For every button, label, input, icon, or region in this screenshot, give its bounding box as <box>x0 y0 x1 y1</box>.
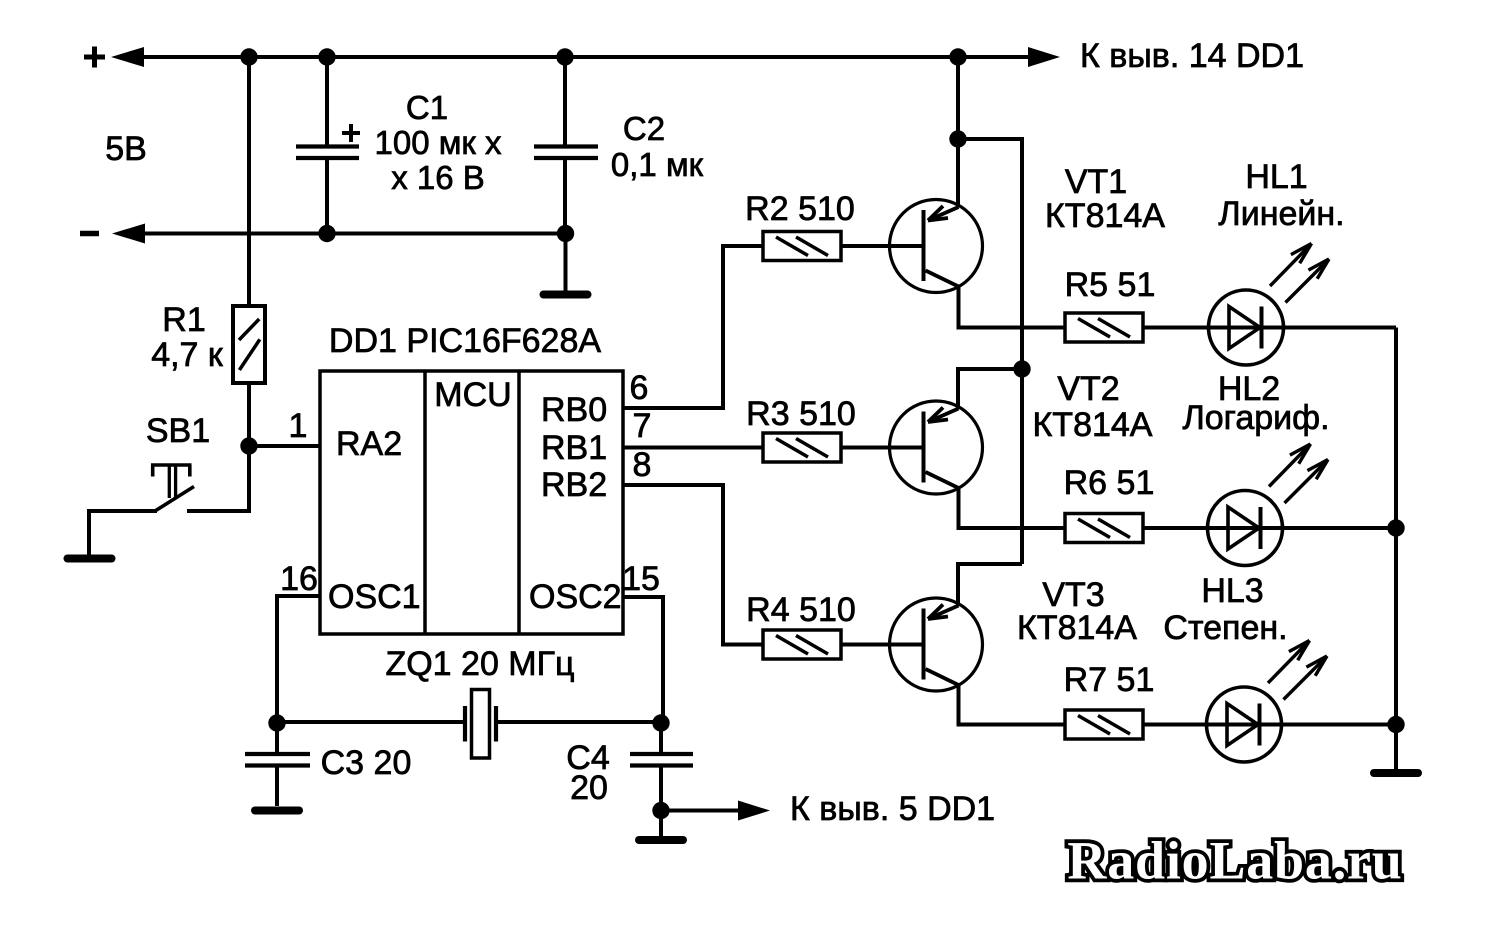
wire C3 to ground <box>275 765 279 806</box>
svg-text:ZQ1 20 МГц: ZQ1 20 МГц <box>385 645 574 683</box>
label 20 <box>570 769 608 807</box>
transistor VT3 <box>840 598 983 691</box>
svg-text:C2: C2 <box>623 110 665 147</box>
wire emitter bus lower <box>1020 369 1024 564</box>
svg-text:15: 15 <box>622 560 660 598</box>
LED HL2 <box>1208 444 1329 566</box>
wire R6 to HL2 <box>1143 526 1208 530</box>
label HL2 <box>1218 370 1280 408</box>
svg-text:7: 7 <box>633 407 652 445</box>
wire HL3 to right bus <box>1281 723 1396 727</box>
svg-text:4,7 к: 4,7 к <box>151 336 224 374</box>
label VT1 <box>1065 163 1127 201</box>
node junction RA2/SB1 <box>240 437 257 454</box>
label C1 <box>406 89 448 126</box>
ground at C2 <box>544 291 588 299</box>
label HL1 <box>1245 158 1307 196</box>
capacitor C4 <box>630 754 693 766</box>
node junction top rail at C2 <box>556 48 573 65</box>
svg-text:MCU: MCU <box>434 376 511 414</box>
label Линейн. <box>1218 195 1344 233</box>
wire +5V top rail with left arrow <box>111 47 1032 67</box>
svg-text:RB0: RB0 <box>541 391 607 429</box>
LED HL3 <box>1207 641 1328 763</box>
pin number 1 <box>289 407 308 445</box>
svg-text:RA2: RA2 <box>336 425 402 463</box>
logo RadioLaba.ru <box>1067 831 1402 891</box>
svg-text:RadioLaba.ru: RadioLaba.ru <box>1067 831 1402 891</box>
node junction top rail at R1 <box>240 48 257 65</box>
ground at C3 <box>255 807 299 815</box>
svg-text:5В: 5В <box>105 130 147 168</box>
wire ZQ1 right <box>496 720 663 724</box>
wire bus to VT2 emitter <box>958 369 1022 409</box>
transistor VT2 <box>840 401 983 494</box>
svg-text:К выв. 5 DD1: К выв. 5 DD1 <box>790 790 995 828</box>
wire ZQ1 left <box>277 720 465 724</box>
label К выв. 5 DD1 <box>790 790 995 828</box>
label C3 20 <box>321 744 412 782</box>
svg-text:R1: R1 <box>162 301 205 339</box>
wire C4 top <box>659 722 663 753</box>
svg-text:RB2: RB2 <box>541 466 607 504</box>
svg-text:R3 510: R3 510 <box>746 395 856 433</box>
capacitor C2 <box>534 147 598 159</box>
label Степен. <box>1163 609 1287 647</box>
plus power terminal <box>84 47 105 68</box>
wire R4 to VT3 base <box>841 643 890 647</box>
label SB1 <box>146 412 210 450</box>
svg-text:VT1: VT1 <box>1065 163 1127 201</box>
svg-text:DD1 PIC16F628A: DD1 PIC16F628A <box>329 322 601 360</box>
wire bus jog to VT1 emitter <box>958 139 1022 207</box>
svg-text:20: 20 <box>570 769 608 807</box>
resistor R4 <box>763 630 841 659</box>
ground at C4 <box>639 836 683 844</box>
svg-text:КТ814А: КТ814А <box>1017 609 1137 647</box>
wire R5 to HL1 <box>1143 326 1209 330</box>
wire VT2 collector to R6 <box>959 488 1066 528</box>
label C2 <box>623 110 665 147</box>
label R4 510 <box>746 591 856 629</box>
wire R7 to HL3 <box>1143 723 1207 727</box>
svg-text:Линейн.: Линейн. <box>1218 195 1344 233</box>
wire VT3 collector to R7 <box>959 685 1066 725</box>
wire pin 6 RB0 to R2 <box>623 246 764 408</box>
wire C1 top <box>325 57 329 146</box>
label VT2 <box>1057 370 1119 408</box>
node junction C4/ground/arrow <box>652 802 669 819</box>
pin number 15 <box>622 560 660 598</box>
wire R1 to RA2 node <box>247 381 251 446</box>
svg-text:16: 16 <box>280 560 318 598</box>
svg-text:КТ814А: КТ814А <box>1033 406 1153 444</box>
wire emitter bus vertical <box>1020 137 1024 369</box>
label 4,7 к <box>151 336 224 374</box>
svg-text:R2 510: R2 510 <box>745 190 855 228</box>
svg-text:6: 6 <box>630 369 649 407</box>
label MCU <box>434 376 511 414</box>
minus power terminal <box>80 231 99 237</box>
resistor R6 <box>1065 514 1143 543</box>
resistor R5 <box>1065 313 1143 342</box>
node junction right bus HL3 <box>1387 716 1404 733</box>
wire R3 to VT2 base <box>841 446 890 450</box>
label RB2 <box>541 466 607 504</box>
svg-text:R5 51: R5 51 <box>1065 266 1156 304</box>
resistor R2 <box>763 232 841 261</box>
node junction right bus HL2 <box>1387 519 1404 536</box>
label R3 510 <box>746 395 856 433</box>
wire pin 1 RA2 <box>249 444 320 448</box>
label Логариф. <box>1182 399 1329 437</box>
svg-text:SB1: SB1 <box>146 412 210 450</box>
LED HL1 <box>1209 244 1330 366</box>
label RB1 <box>541 429 607 467</box>
label х 16 В <box>391 159 485 196</box>
node junction OSC2/C4/ZQ1 <box>652 714 669 731</box>
wire right bus <box>1394 328 1398 770</box>
crystal ZQ1 <box>465 690 496 759</box>
label К выв. 14 DD1 <box>1080 37 1304 75</box>
wire emitter bus top <box>956 57 960 139</box>
label R1 <box>162 301 205 339</box>
wire C2 bottom <box>563 158 567 234</box>
transistor VT1 <box>840 200 983 293</box>
node junction bottom rail at C1 <box>318 225 335 242</box>
svg-text:0,1 мк: 0,1 мк <box>611 146 704 183</box>
wire C4 to node <box>659 765 663 810</box>
svg-text:КТ814А: КТ814А <box>1045 197 1165 235</box>
pushbutton SB1 <box>151 444 249 511</box>
resistor R1 <box>233 306 265 383</box>
label R7 51 <box>1064 661 1155 699</box>
pin number 7 <box>633 407 652 445</box>
label DD1 PIC16F628A <box>329 322 601 360</box>
resistor R3 <box>763 433 841 462</box>
wire pin 7 RB1 to R3 <box>623 446 764 450</box>
svg-text:R6 51: R6 51 <box>1064 464 1155 502</box>
svg-text:100 мк х: 100 мк х <box>374 124 502 161</box>
label 5В <box>105 130 147 168</box>
svg-text:К выв. 14 DD1: К выв. 14 DD1 <box>1080 37 1304 75</box>
svg-text:Логариф.: Логариф. <box>1182 399 1329 437</box>
label OSC1 <box>328 578 421 616</box>
svg-text:C1: C1 <box>406 89 448 126</box>
svg-text:VT2: VT2 <box>1057 370 1119 408</box>
node junction top rail at C1 <box>318 48 335 65</box>
wire HL2 to right bus <box>1282 526 1396 530</box>
node junction top rail at VT emitter bus <box>949 48 966 65</box>
label R5 51 <box>1065 266 1156 304</box>
svg-text:R7 51: R7 51 <box>1064 661 1155 699</box>
label КТ814А VT2 <box>1033 406 1153 444</box>
wire VT1 collector to R5 <box>959 287 1066 328</box>
wire R2 to VT1 base <box>841 244 890 248</box>
svg-text:х 16 В: х 16 В <box>391 159 485 196</box>
label C4 <box>566 739 609 777</box>
label КТ814А VT3 <box>1017 609 1137 647</box>
node junction emitter bus VT2 <box>1013 360 1030 377</box>
pin number 16 <box>280 560 318 598</box>
node junction emitter bus top <box>949 130 966 147</box>
ground at SB1 <box>68 555 112 563</box>
wire C3 top <box>275 722 279 753</box>
label ZQ1 20 МГц <box>385 645 574 683</box>
pin number 6 <box>630 369 649 407</box>
svg-text:OSC1: OSC1 <box>328 578 421 616</box>
ground at right bus <box>1374 769 1418 777</box>
arrow to pin 14 DD1 <box>1028 47 1060 67</box>
capacitor C1 <box>296 124 360 158</box>
label КТ814А VT1 <box>1045 197 1165 235</box>
node junction bottom rail end at C2 <box>557 225 574 242</box>
svg-text:OSC2: OSC2 <box>529 578 622 616</box>
wire pin 8 RB2 to R4 <box>623 485 764 645</box>
label R6 51 <box>1064 464 1155 502</box>
label HL3 <box>1201 572 1263 610</box>
wire C1 bottom <box>325 158 329 234</box>
svg-text:8: 8 <box>633 446 652 484</box>
IC DD1 PIC16F628A box <box>320 371 623 634</box>
svg-text:HL3: HL3 <box>1201 572 1263 610</box>
wire HL1 to right bus <box>1283 326 1396 330</box>
pin number 8 <box>633 446 652 484</box>
wire bus to VT3 emitter <box>958 564 1022 606</box>
svg-text:C3 20: C3 20 <box>321 744 412 782</box>
wire SB1 to ground <box>89 511 157 556</box>
label OSC2 <box>529 578 622 616</box>
svg-text:R4 510: R4 510 <box>746 591 856 629</box>
label VT3 <box>1042 576 1104 614</box>
svg-text:1: 1 <box>289 407 308 445</box>
wire from top rail down to R1 <box>247 55 251 308</box>
label RA2 <box>336 425 402 463</box>
wire 0V bottom rail with left arrow <box>112 224 566 244</box>
wire C4 node to ground <box>659 810 663 837</box>
wire C2 to ground <box>564 234 568 292</box>
svg-text:HL1: HL1 <box>1245 158 1307 196</box>
wire and arrow to pin 5 DD1 <box>661 801 770 821</box>
label R2 510 <box>745 190 855 228</box>
svg-text:RB1: RB1 <box>541 429 607 467</box>
wire pin 16 OSC1 <box>277 596 320 722</box>
capacitor C3 <box>245 754 310 766</box>
svg-text:Степен.: Степен. <box>1163 609 1287 647</box>
node junction OSC1/C3/ZQ1 <box>268 714 285 731</box>
label RB0 <box>541 391 607 429</box>
label 100 мк х <box>374 124 502 161</box>
wire C2 top <box>563 57 567 146</box>
label 0,1 мк <box>611 146 704 183</box>
wire pin 15 OSC2 <box>623 597 663 722</box>
resistor R7 <box>1065 710 1143 739</box>
